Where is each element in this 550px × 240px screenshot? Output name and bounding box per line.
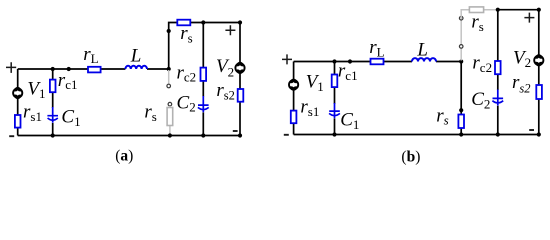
node: dot on riser (a)	[167, 29, 171, 33]
node: junction after L (b)	[459, 59, 463, 63]
resistor rL (a)	[88, 67, 101, 73]
node: rc1 top junction (b)	[332, 59, 336, 63]
gray stub above junction (b)	[460, 19, 462, 61]
plus terminal (a) right	[225, 25, 235, 35]
svg-text:V1: V1	[27, 79, 45, 102]
minus terminal (b) left	[284, 134, 289, 136]
svg-text:V2: V2	[513, 47, 531, 70]
node: bottom right corner (a)	[238, 133, 242, 137]
gray wire to top (b)	[461, 10, 496, 19]
svg-text:C2: C2	[177, 92, 196, 114]
minus terminal (a) right	[233, 130, 238, 132]
svg-text:C1: C1	[61, 106, 80, 128]
node: top right corner (a)	[238, 20, 242, 24]
node: rc2 top junction (a)	[201, 20, 205, 24]
capacitor C1 (a)	[47, 107, 58, 123]
wire: rc2/C2 branch (a)	[202, 23, 204, 136]
resistor rc1 (b)	[332, 75, 338, 88]
node: mid dot on top rail (a)	[67, 67, 71, 71]
svg-text:rs2: rs2	[216, 80, 235, 103]
svg-text:C2: C2	[471, 89, 490, 111]
svg-text:rs: rs	[180, 23, 192, 45]
wire: (b) top rail	[294, 61, 462, 63]
resistor rc1 (a)	[50, 80, 56, 93]
svg-text:(b): (b)	[401, 149, 420, 166]
inductor L (a)	[125, 66, 147, 69]
svg-text:rL: rL	[369, 37, 384, 59]
wire: rs branch (b)	[460, 62, 462, 135]
capacitor C1 (b)	[329, 103, 340, 118]
plus terminal (a) left	[6, 62, 16, 73]
node: C2 bottom junction (b)	[496, 132, 500, 136]
node: C1 bottom junction (b)	[332, 132, 336, 136]
wire: rc1/C1 branch (a)	[52, 69, 54, 136]
svg-text:L: L	[416, 40, 428, 61]
wire: (a) upper loop	[169, 23, 240, 136]
inductor L (b)	[412, 58, 436, 61]
svg-text:rs1: rs1	[23, 101, 42, 123]
resistor rs1 (a)	[15, 115, 21, 128]
resistor rs2 (a)	[238, 89, 244, 102]
source V1 (b)	[289, 80, 298, 89]
source V2 (b)	[534, 56, 543, 65]
wire: (b) top right rail	[498, 9, 539, 11]
node: gray rs bottom junction (a)	[168, 133, 172, 137]
svg-text:L: L	[130, 46, 142, 67]
open terminal lower (a)	[168, 102, 172, 106]
node: C2 bottom junction (a)	[201, 133, 205, 137]
node: C1 bottom junction (a)	[51, 133, 55, 137]
resistor rs disconnected (a)	[169, 106, 171, 135]
resistor rL (b)	[371, 59, 384, 65]
resistor rs1 (b)	[291, 111, 297, 124]
node: rs bottom junction (b)	[459, 132, 463, 136]
wire: (a) left branch	[17, 69, 19, 136]
svg-text:rs2: rs2	[512, 72, 531, 96]
source V1 (a)	[13, 88, 22, 97]
wire: (b) bottom rail	[294, 134, 539, 136]
svg-text:rc2: rc2	[472, 52, 492, 74]
resistor rs2 (b)	[536, 85, 542, 99]
source V2 (a)	[235, 63, 244, 72]
node: junction after L (a)	[167, 67, 171, 71]
wire: rc2/C2 branch (b)	[497, 10, 499, 135]
svg-text:rc1: rc1	[338, 60, 358, 82]
svg-text:rs: rs	[144, 101, 156, 123]
capacitor C2 (a)	[198, 96, 209, 112]
node: top junction of C2 branch (b)	[496, 8, 500, 12]
minus terminal (a) left	[9, 135, 14, 137]
svg-text:rs: rs	[471, 11, 483, 33]
node: mid dot on top rail (b)	[348, 59, 352, 63]
svg-text:C1: C1	[340, 109, 359, 131]
svg-text:rL: rL	[83, 44, 98, 66]
svg-text:(a): (a)	[115, 148, 133, 165]
svg-text:V2: V2	[216, 56, 234, 80]
wire: (b) right branch	[538, 10, 540, 135]
gray stub from L junction (a)	[168, 70, 170, 84]
resistor rs disconnected (b)	[469, 7, 483, 13]
node: top right corner (b)	[537, 8, 541, 12]
wire: (a) top rail	[18, 68, 169, 70]
node: rc1 top junction (a)	[51, 67, 55, 71]
resistor rs (b)	[458, 115, 464, 129]
svg-text:rs: rs	[436, 105, 448, 127]
svg-text:rc2: rc2	[177, 62, 197, 84]
node: bottom right corner (b)	[537, 132, 541, 136]
minus terminal (b) right	[529, 129, 534, 131]
node: dot above rs (b)	[459, 108, 463, 112]
svg-text:rc1: rc1	[58, 70, 78, 92]
wire: (a) bottom rail	[18, 135, 240, 137]
resistor rc2 (a)	[201, 68, 207, 81]
plus terminal (b) right	[524, 13, 534, 23]
open terminal upper (a)	[167, 84, 171, 88]
capacitor C2 (b)	[492, 90, 503, 106]
open terminal upper (b)	[459, 16, 463, 20]
wire: (b) left branch	[293, 62, 295, 135]
svg-text:rs1: rs1	[300, 97, 319, 119]
plus terminal (b) left	[282, 54, 292, 64]
wire: rc1/C1 branch (b)	[334, 62, 336, 135]
svg-text:V1: V1	[306, 72, 324, 95]
resistor rs top (a)	[177, 20, 190, 26]
resistor rc2 (b)	[495, 61, 501, 74]
open terminal lower (b)	[459, 45, 463, 49]
